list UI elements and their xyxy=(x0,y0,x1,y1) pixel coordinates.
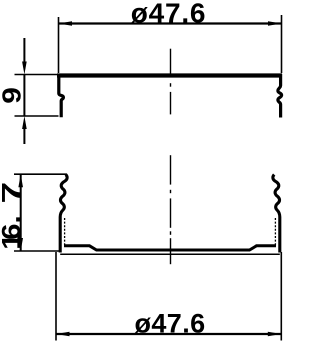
extension line left (top dimension) xyxy=(58,17,60,73)
arrowhead right (top dimension) xyxy=(268,21,282,26)
svg-text:16.: 16. xyxy=(0,215,26,249)
dimension 16.7: top extension line xyxy=(14,173,67,175)
bottom view cover: left wall inner line xyxy=(64,218,66,246)
dimension line Ø47.6 top xyxy=(59,22,282,24)
bottom view cover: outer base line xyxy=(60,253,280,255)
arrowhead left (bottom dimension) xyxy=(56,332,70,337)
dimension Ø47.6 bottom: right extension line xyxy=(280,252,282,341)
arrowhead left (top dimension) xyxy=(59,21,73,26)
svg-text:9: 9 xyxy=(0,87,26,104)
centerline (top view) xyxy=(170,49,172,115)
dimension 9: outside arrow below xyxy=(22,116,27,144)
dimension 16.7: dimension line with arrows xyxy=(18,174,23,251)
extension line right (top dimension) xyxy=(281,15,283,73)
dimension text 16.7 (rotated) xyxy=(0,182,26,250)
svg-text:ø47.6: ø47.6 xyxy=(134,309,205,339)
arrowhead right (bottom dimension) xyxy=(268,332,282,337)
top view cap: right wall with crimp wiggles xyxy=(278,74,282,118)
dimension 9: top extension line xyxy=(15,74,59,76)
bottom view cover: right crimped wall xyxy=(273,175,280,253)
dimension text ø47.6 (bottom) xyxy=(134,309,205,339)
dimension Ø47.6 bottom: left extension line xyxy=(55,252,57,341)
centerline (bottom view) xyxy=(170,155,172,264)
dimension 9: outside arrow above xyxy=(22,38,27,75)
bottom view cover: stepped inner base line xyxy=(64,246,276,250)
top view cap: left wall with bead xyxy=(59,74,64,117)
dimension text 9 (rotated) xyxy=(0,87,26,104)
dimension 9: bottom extension line xyxy=(15,115,59,117)
dimension text ø47.6 (top) xyxy=(131,0,207,28)
dimension 9: dimension line xyxy=(23,75,25,117)
svg-text:7: 7 xyxy=(0,182,26,204)
dimension 16.7: bottom extension line xyxy=(14,250,60,252)
top view cap: top surface xyxy=(57,73,282,77)
bottom view cover: left crimped wall xyxy=(60,175,67,253)
dimension line Ø47.6 bottom xyxy=(56,333,281,335)
bottom view cover: right wall inner line xyxy=(274,218,276,246)
